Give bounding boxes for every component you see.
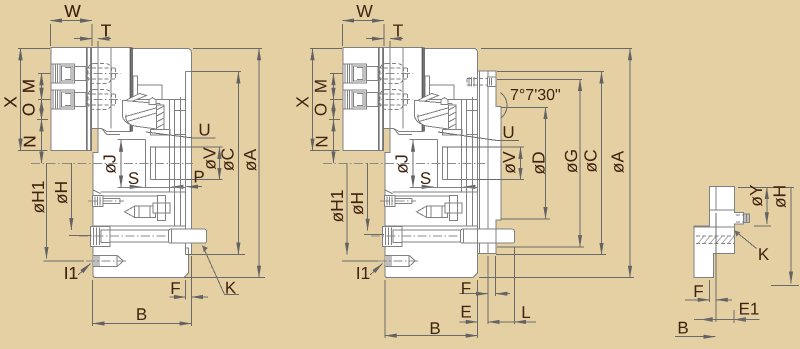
dim B middle — [385, 335, 478, 337]
leader K arrowhead — [203, 246, 208, 253]
dim oA middle extension lines — [479, 49, 634, 278]
guideway double line — [130, 48, 132, 132]
dim oH1 left extension line — [44, 260, 85, 262]
body step lines — [137, 85, 162, 99]
section split line — [93, 190, 186, 194]
dim F left extension lines — [186, 256, 192, 326]
wedge inner arc — [126, 115, 134, 126]
dim oH1 middle — [346, 163, 348, 254]
svg-text:U: U — [502, 123, 514, 142]
svg-text:øY: øY — [746, 184, 766, 207]
dim oA middle — [629, 49, 631, 278]
svg-text:øH: øH — [51, 181, 71, 204]
leader I1 — [78, 264, 90, 276]
svg-text:U: U — [198, 121, 210, 140]
svg-text:øG: øG — [561, 149, 581, 173]
svg-text:L: L — [521, 303, 530, 322]
body step rect top — [133, 76, 138, 99]
mounting screw 1 centerline — [47, 73, 121, 75]
dim X — [20, 49, 22, 151]
jaw step lines — [92, 129, 121, 135]
dim oV left — [150, 147, 223, 180]
leader K right — [735, 231, 757, 249]
main axis centerline — [31, 162, 193, 164]
right view screw thread stub — [744, 214, 750, 223]
dim F right extension lines — [710, 213, 717, 322]
dim oC middle — [601, 72, 603, 255]
dim T extension line — [97, 41, 99, 47]
leader K left — [203, 246, 240, 295]
stud I1 — [93, 255, 123, 266]
screw hole dashed outline 2 — [88, 90, 112, 110]
dim B middle extension line — [384, 280, 386, 338]
svg-text:øH: øH — [347, 192, 367, 215]
svg-text:B: B — [429, 319, 440, 338]
dim oY — [766, 187, 768, 224]
screw hole dashed outline 1 — [88, 64, 112, 84]
body outline middle view — [385, 49, 478, 278]
lower section line — [93, 225, 186, 227]
right view inner lip line — [715, 186, 717, 210]
svg-text:F: F — [461, 279, 471, 298]
stud centerline — [86, 260, 128, 262]
jaw tongue line — [97, 48, 99, 129]
mounting screw 1 hidden shaft — [86, 68, 116, 79]
long bolt head — [91, 226, 111, 246]
dim oY top extension — [738, 186, 794, 188]
dim T — [74, 38, 111, 40]
re-draw guts over body — [47, 48, 131, 151]
svg-text:øA: øA — [240, 148, 260, 171]
wedge inner slant lines — [126, 107, 161, 122]
jaw boundary double line — [87, 48, 91, 151]
shared parts middle — [339, 48, 423, 151]
dim F middle extension lines — [488, 256, 496, 324]
dim oH left extension line — [69, 235, 91, 237]
left small bolt shaft — [103, 199, 120, 204]
mounting screw 2 centerline — [47, 99, 121, 101]
pinion vertical part — [153, 196, 170, 221]
flange inner line — [185, 72, 187, 255]
dim oC left extension lines — [186, 72, 246, 255]
dim O — [41, 100, 43, 120]
mounting screw 2 collar — [75, 93, 87, 107]
lower mech top line — [103, 195, 158, 197]
wedge screw head — [149, 98, 156, 105]
dim F left — [169, 296, 208, 298]
flange notch — [186, 248, 189, 254]
mounting screw 1 collar — [75, 67, 87, 81]
right view silhouette — [694, 186, 743, 277]
svg-text:øC: øC — [218, 148, 238, 171]
svg-text:F: F — [693, 282, 703, 301]
dim oH1 left — [46, 163, 48, 258]
dim W — [50, 20, 92, 22]
long bolt right block middle view — [461, 229, 515, 243]
jaw driver plate — [126, 93, 147, 102]
svg-text:øH: øH — [770, 185, 790, 208]
sleeve step lines — [175, 111, 186, 135]
right view block top line — [694, 226, 734, 228]
left small bolt centerline — [88, 200, 124, 202]
mounting screw 2 head — [51, 90, 75, 109]
dim F right — [685, 299, 732, 301]
dim B right — [675, 336, 716, 338]
svg-text:7°7'30": 7°7'30" — [510, 87, 561, 104]
set screw body — [135, 206, 156, 217]
flange step line — [186, 71, 192, 73]
dim oA left extension lines — [184, 49, 265, 278]
dim oA left — [258, 49, 260, 278]
dim F middle — [460, 293, 510, 295]
dim oV middle — [442, 147, 524, 180]
svg-text:øH1: øH1 — [327, 189, 347, 222]
dim oJ — [120, 140, 122, 187]
body back double line — [479, 71, 481, 254]
outer top jaw block — [51, 48, 92, 151]
svg-text:K: K — [758, 245, 770, 264]
right view step line — [710, 209, 735, 211]
dim X extension lines — [18, 48, 50, 50]
dim E1 extension — [733, 310, 735, 323]
jaw inner edge line — [110, 48, 112, 129]
dim oH middle extension line — [364, 234, 384, 236]
dim oG — [579, 79, 581, 247]
svg-text:øC: øC — [581, 149, 601, 172]
dim oC middle extension lines — [496, 72, 606, 255]
svg-text:øV: øV — [200, 147, 220, 170]
long bolt centerline — [79, 235, 186, 237]
dim oD extension lines — [501, 107, 550, 218]
svg-text:øV: øV — [499, 151, 519, 174]
wedge stud hatched — [157, 105, 165, 130]
adapter plate middle — [478, 71, 501, 254]
svg-text:E1: E1 — [739, 300, 760, 319]
dim B left — [93, 323, 192, 325]
svg-text:B: B — [136, 305, 147, 324]
leader K right arrowhead — [735, 231, 741, 237]
mounting screw 2 hidden shaft — [86, 94, 116, 105]
right view hatch band — [696, 236, 735, 243]
dim oG extension lines — [497, 79, 584, 247]
dim M/O/N extension lines — [37, 74, 50, 120]
jaw interface line — [86, 48, 88, 151]
svg-text:F: F — [170, 279, 180, 298]
mounting screw 1 head — [51, 64, 75, 83]
svg-text:B: B — [677, 319, 688, 338]
dim N — [41, 120, 43, 164]
dim oH left — [70, 163, 72, 230]
dim P left — [186, 186, 202, 188]
angle arc 7d7m30s — [501, 93, 508, 118]
dim B left extension line — [92, 280, 94, 326]
svg-text:E: E — [460, 303, 471, 322]
svg-text:øH1: øH1 — [28, 180, 48, 213]
dim oY bottom extension — [754, 225, 771, 227]
dim M — [41, 74, 43, 100]
wedge stud nut — [151, 130, 171, 135]
long bolt shaft — [110, 230, 169, 242]
sleeve verticals — [170, 97, 181, 192]
dim S — [130, 186, 178, 188]
dim W extension lines — [49, 24, 51, 46]
plate inner line — [487, 71, 489, 254]
long bolt right block left view — [169, 229, 207, 243]
dim E/L extension lines — [478, 247, 515, 338]
leader U left — [146, 132, 216, 138]
sleeve top line — [137, 98, 185, 100]
leader U middle — [438, 132, 519, 141]
set screw cone — [125, 206, 135, 217]
dim oH right — [790, 187, 792, 283]
top bolt middle view — [467, 77, 496, 87]
dim oH right bottom extension — [771, 284, 799, 286]
svg-text:øA: øA — [608, 150, 628, 173]
dim oH middle — [367, 163, 369, 230]
wedge main block — [122, 100, 160, 129]
dim E1 — [694, 317, 760, 322]
left small bolt head — [93, 196, 104, 207]
dim oH1 middle extension line — [342, 260, 378, 262]
dim E and L — [460, 321, 536, 323]
bore upper lines — [118, 139, 187, 187]
base jaw block — [92, 48, 132, 132]
body outline left view — [93, 49, 191, 278]
svg-text:øD: øD — [529, 151, 549, 174]
right view stub dashes — [736, 215, 744, 222]
svg-text:P: P — [193, 168, 204, 187]
dim oC left — [237, 72, 239, 255]
dim oD — [545, 107, 547, 218]
lower verticals — [175, 192, 181, 226]
